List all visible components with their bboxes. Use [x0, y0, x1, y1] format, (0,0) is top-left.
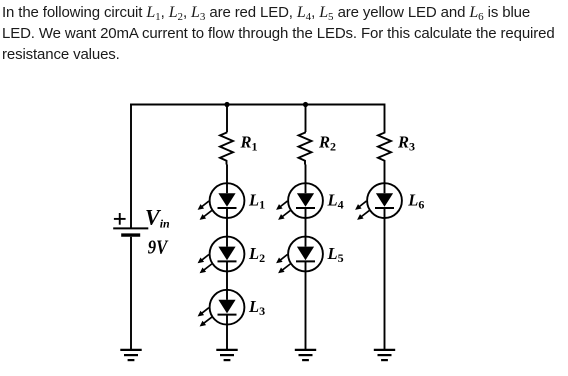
svg-text:R3: R3	[397, 133, 415, 154]
resistor R2	[299, 132, 312, 165]
ground (branch 1)	[216, 350, 237, 360]
LED L2	[198, 237, 245, 274]
svg-text:L5: L5	[327, 244, 344, 265]
wire: top rail	[130, 104, 384, 106]
wire: battery - to ground	[130, 237, 132, 350]
ground (battery branch)	[120, 350, 141, 360]
svg-text:L6: L6	[407, 191, 424, 212]
wire: branch 2 stub from rail to R2	[305, 105, 307, 133]
problem statement text	[2, 2, 566, 65]
wire: L1 to L2	[226, 218, 228, 237]
wire: branch 3 stub from rail corner to R3	[384, 104, 386, 133]
wire: R3 to L6	[384, 165, 386, 184]
resistor R3	[378, 132, 391, 165]
svg-text:Vin: Vin	[145, 205, 170, 231]
LED L1	[198, 183, 245, 220]
battery Vin	[113, 213, 148, 235]
ground (branch 2)	[295, 350, 316, 360]
node: branch 2 tap junction	[303, 102, 308, 107]
wire: left branch from top rail to battery +	[130, 104, 132, 228]
wire: L2 to L3	[226, 271, 228, 289]
LED L3	[198, 290, 245, 327]
wire: L6 to ground	[384, 218, 386, 350]
svg-text:R2: R2	[318, 133, 336, 154]
LED L6	[355, 183, 402, 220]
wire: branch 1 stub from rail to R1	[226, 105, 228, 133]
wire: L4 to L5	[305, 218, 307, 237]
resistor R1	[220, 132, 233, 165]
svg-text:L4: L4	[327, 191, 344, 212]
svg-text:L2: L2	[248, 244, 265, 265]
svg-text:L3: L3	[248, 297, 265, 318]
wire: R2 to L4	[305, 165, 307, 184]
svg-text:L1: L1	[248, 191, 265, 212]
LED L5	[276, 237, 323, 274]
wire: L5 to ground	[305, 271, 307, 349]
ground (branch 3)	[374, 350, 395, 360]
node: branch 1 tap junction	[224, 102, 229, 107]
wire: R1 to L1	[226, 165, 228, 184]
wire: L3 to ground	[226, 325, 228, 350]
svg-text:R1: R1	[240, 133, 258, 154]
svg-text:9V: 9V	[148, 236, 169, 258]
LED L4	[276, 183, 323, 220]
